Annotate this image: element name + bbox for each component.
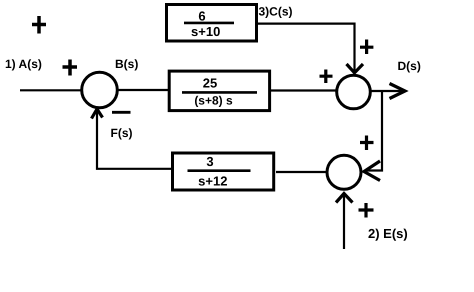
wire S2 output to D(s) [371,90,403,92]
arrowhead right D(s) output [390,84,406,99]
svg-text:D(s): D(s) [398,59,421,73]
arrowhead up into S1 bottom [92,109,103,119]
sign + (left of S2) [320,70,333,84]
sign + (above S2) [360,40,373,55]
svg-text:25: 25 [203,75,217,90]
svg-text:6: 6 [198,8,205,23]
arrowhead left into S3 [364,161,380,181]
block G1 6/(s+10) [167,5,257,42]
wire A(s) input to summing junction S1 [20,89,82,91]
svg-text:3)C(s): 3)C(s) [259,5,293,19]
svg-text:B(s): B(s) [115,57,138,71]
arrowhead down into S2 [347,64,364,73]
block G2 25/((s+8)s) [169,71,269,111]
wire S3 to block G3 [276,171,327,173]
wire S1 to block G2 [117,89,169,91]
wire branch from D(s) down to summing junction S3 [366,91,382,171]
summing junction S1 [82,72,118,108]
svg-text:1) A(s): 1) A(s) [5,57,42,71]
wire block G2 to summing junction S2 [270,89,337,91]
svg-text:(s+8) s: (s+8) s [194,93,233,107]
sign + (top-left stray plus) [32,16,46,34]
wire block G3 to S1 (feedback F(s)) [97,112,172,169]
sign - (below S1, feedback) [112,111,131,114]
sign + (above-right of S3) [360,136,374,151]
wire C(s) branch: block G1 to summing junction S2 top [258,24,355,72]
arrowhead up into S3 bottom [336,194,353,203]
summing junction S2 [337,75,371,109]
svg-text:F(s): F(s) [111,126,133,140]
sign + (A(s) input) [63,60,78,76]
summing junction S3 [327,155,361,189]
svg-text:s+12: s+12 [198,173,227,188]
wire E(s) input up into S3 [343,194,345,249]
svg-text:s+10: s+10 [191,24,220,39]
svg-text:2) E(s): 2) E(s) [368,226,408,241]
svg-text:3: 3 [206,154,213,169]
sign + (below S3, E(s) input) [359,203,374,218]
block G3 3/(s+12) [173,153,274,190]
